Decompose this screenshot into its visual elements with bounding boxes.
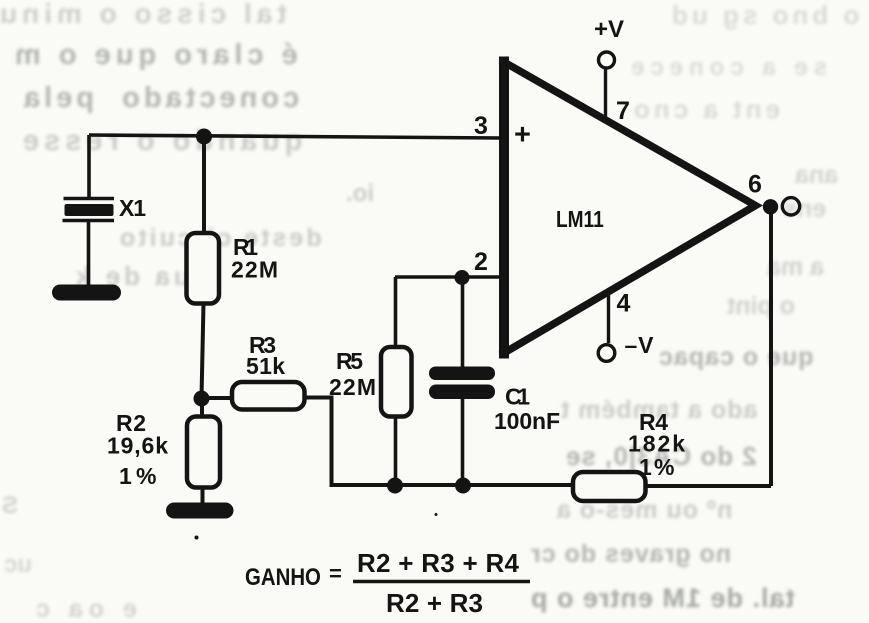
svg-text:+V: +V [594, 16, 624, 43]
svg-text:–V: –V [625, 332, 655, 358]
svg-text:R2 + R3 + R4: R2 + R3 + R4 [357, 548, 520, 578]
svg-text:=: = [329, 561, 342, 586]
svg-text:R2 + R3: R2 + R3 [386, 588, 483, 618]
svg-text:2: 2 [474, 248, 488, 276]
svg-text:4: 4 [617, 290, 631, 318]
svg-text:C1: C1 [505, 384, 530, 410]
svg-text:+: + [514, 119, 531, 151]
svg-text:7: 7 [616, 97, 630, 125]
svg-text:22M: 22M [329, 374, 376, 400]
svg-text:100nF: 100nF [494, 408, 560, 434]
svg-text:1: 1 [119, 463, 132, 489]
svg-text:22M: 22M [231, 257, 278, 283]
svg-text:R5: R5 [336, 348, 363, 374]
svg-text:GANHO: GANHO [245, 563, 321, 590]
svg-text:6: 6 [748, 171, 762, 199]
svg-text:LM11: LM11 [556, 207, 604, 232]
svg-text:%: % [654, 454, 674, 480]
svg-text:51k: 51k [246, 353, 285, 379]
svg-text:1: 1 [639, 454, 652, 480]
svg-text:X1: X1 [119, 195, 146, 221]
svg-text:%: % [136, 463, 156, 489]
svg-text:19,6k: 19,6k [107, 433, 168, 459]
svg-text:3: 3 [474, 112, 488, 140]
svg-text:182k: 182k [628, 431, 685, 457]
